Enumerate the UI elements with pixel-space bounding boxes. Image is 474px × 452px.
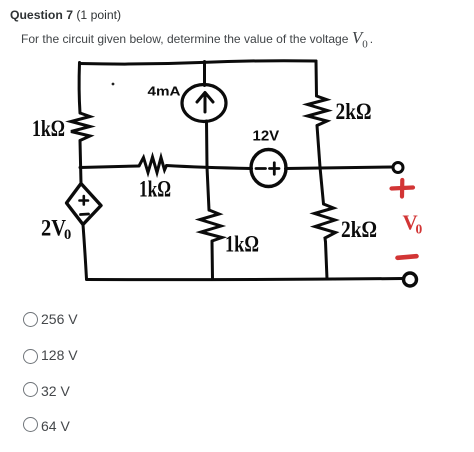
svg-text:12V: 12V — [253, 128, 280, 145]
svg-text:1kΩ: 1kΩ — [139, 177, 171, 202]
svg-text:0: 0 — [64, 227, 71, 243]
svg-text:2kΩ: 2kΩ — [336, 99, 372, 124]
svg-text:1kΩ: 1kΩ — [225, 232, 259, 257]
svg-text:2V: 2V — [41, 216, 66, 241]
svg-text:1kΩ: 1kΩ — [32, 116, 65, 141]
svg-text:4mA: 4mA — [148, 84, 182, 99]
svg-text:0: 0 — [416, 222, 423, 237]
svg-text:2kΩ: 2kΩ — [341, 217, 377, 242]
